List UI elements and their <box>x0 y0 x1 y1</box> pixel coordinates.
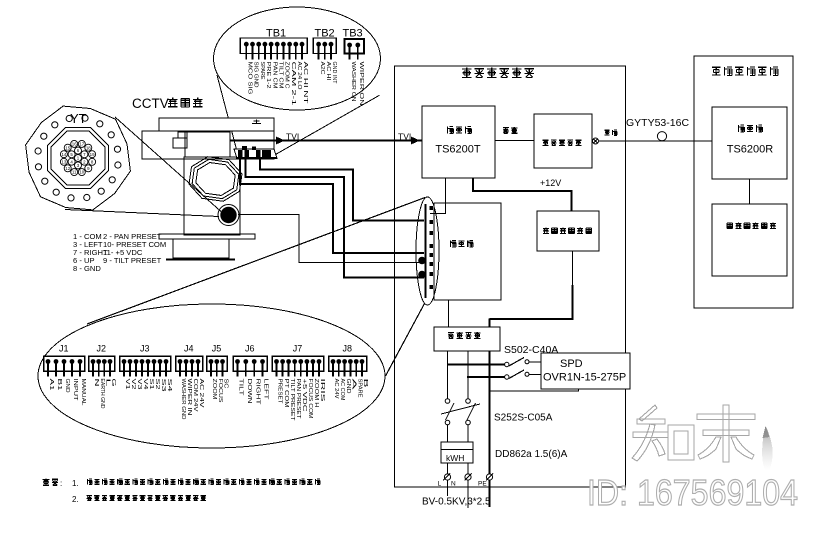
wire N drop <box>467 480 469 508</box>
callout ellipse TB detail <box>214 7 381 110</box>
DC power supply box <box>537 211 599 251</box>
svg-text:SC: SC <box>223 379 229 389</box>
terminal block J8 <box>329 344 369 402</box>
YT connector octagon body <box>48 128 109 189</box>
svg-text:AC 24V: AC 24V <box>333 379 339 399</box>
YT connector outer polygon <box>26 106 131 210</box>
label fiber pigtail <box>495 140 534 142</box>
svg-text:AC 24V: AC 24V <box>198 379 204 409</box>
camera connector socket <box>218 205 239 226</box>
svg-text:DD862a 1.5(6)A: DD862a 1.5(6)A <box>495 449 568 460</box>
wire +12V feed <box>473 178 572 211</box>
wire pan control W_a <box>260 159 424 221</box>
wire TVI video coax <box>230 139 422 141</box>
callout tangent line YT-bottom <box>65 210 219 217</box>
svg-text:S252S-C05A: S252S-C05A <box>494 413 553 424</box>
police station title <box>712 67 720 75</box>
wire AVR output N <box>467 351 469 399</box>
svg-text:PRESET: PRESET <box>277 379 283 405</box>
callout ellipse J detail <box>38 304 385 448</box>
svg-text:ZOOM: ZOOM <box>211 379 217 401</box>
svg-text:SPARE: SPARE <box>356 379 362 398</box>
terminal block J5 <box>207 344 229 404</box>
svg-text:COM 24V: COM 24V <box>192 379 198 413</box>
breaker S502-C40A pole 2 <box>505 370 541 379</box>
svg-text:S1: S1 <box>148 379 154 390</box>
svg-text:G: G <box>110 379 116 387</box>
wire PE drop <box>488 480 490 507</box>
svg-text:J1: J1 <box>59 344 69 354</box>
camera inner body <box>185 132 230 157</box>
wire preset W_c <box>246 159 425 278</box>
notes label <box>43 478 50 485</box>
svg-text:TB3: TB3 <box>343 28 363 40</box>
svg-text:AC COM: AC COM <box>339 379 345 402</box>
callout tangent line decoder-top <box>87 198 425 325</box>
svg-text:TS6200R: TS6200R <box>727 144 774 156</box>
svg-text:CAM 2-1: CAM 2-1 <box>290 62 296 106</box>
svg-text:16: 16 <box>72 142 77 147</box>
YT connector mounting holes ring <box>35 115 121 201</box>
svg-text:TVI: TVI <box>398 132 411 142</box>
wire meter to terminal L <box>447 463 449 474</box>
terminal N <box>451 474 472 488</box>
watermark cursor blob <box>762 426 773 471</box>
control box enclosure <box>395 66 626 487</box>
camera lens octagon <box>187 155 243 204</box>
svg-text:WASHER GND: WASHER GND <box>180 379 186 420</box>
wire breaker to meter L <box>447 425 449 442</box>
terminal block TB1 <box>240 28 308 106</box>
svg-text:TILT: TILT <box>238 379 244 397</box>
arrow TVI near camera <box>276 137 285 145</box>
svg-text:WIPER ON: WIPER ON <box>358 62 364 106</box>
svg-text:GND: GND <box>64 379 70 393</box>
breaker S252S-C05A pole 2 <box>466 399 476 425</box>
wire tap to SPD N <box>467 376 505 378</box>
police station enclosure <box>694 56 793 308</box>
svg-text:13: 13 <box>61 159 66 164</box>
svg-text:S2: S2 <box>154 379 160 390</box>
wire decoder to AVR <box>448 300 450 327</box>
svg-text:TILT CM: TILT CM <box>277 62 283 90</box>
svg-text:IRIS: IRIS <box>319 379 325 403</box>
svg-text:PT COM: PT COM <box>283 379 289 409</box>
camera terminal strip <box>234 146 277 159</box>
svg-text:RIGHT: RIGHT <box>254 379 260 406</box>
svg-text:PAN CM: PAN CM <box>271 62 277 90</box>
svg-text:A2C: A2C <box>319 62 325 75</box>
camera housing lid <box>159 118 274 131</box>
wire tilt control W_b <box>240 159 424 253</box>
svg-text:CCTV: CCTV <box>132 96 169 111</box>
svg-text:10: 10 <box>79 170 84 175</box>
svg-text:2.: 2. <box>72 495 79 504</box>
svg-text:FOCUS COM: FOCUS COM <box>307 379 313 420</box>
fiber terminal box <box>534 114 592 168</box>
svg-text:N: N <box>93 379 99 387</box>
wire AVR output L <box>447 351 449 399</box>
svg-text:WASHER ON: WASHER ON <box>350 62 356 102</box>
svg-text:LEFT: LEFT <box>263 379 269 401</box>
callout tangent line TB-right <box>276 95 380 154</box>
svg-text:V2: V2 <box>130 379 136 390</box>
svg-text:15: 15 <box>65 145 70 150</box>
svg-text:V4: V4 <box>142 379 148 390</box>
terminal block J1 <box>44 344 87 406</box>
svg-text:MCO SIG: MCO SIG <box>247 62 253 95</box>
svg-text:8 - GND: 8 - GND <box>73 264 101 273</box>
SPD surge protector box <box>541 353 630 389</box>
terminal block J7 <box>272 344 325 422</box>
svg-text:9 - TILT PRESET: 9 - TILT PRESET <box>103 256 162 265</box>
wire DC supply to AVR and PE <box>572 251 574 286</box>
svg-text:AC HI: AC HI <box>325 62 331 81</box>
svg-text:1.: 1. <box>72 479 79 488</box>
control box title <box>462 68 472 78</box>
terminal block J3 <box>120 344 173 392</box>
breaker S252S-C05A pole 1 <box>445 399 454 425</box>
terminal block J4 <box>176 344 205 420</box>
decoder box <box>434 203 501 300</box>
svg-text:GND: GND <box>345 379 351 394</box>
svg-text:J8: J8 <box>343 344 353 354</box>
svg-text:WIPER IN: WIPER IN <box>186 379 192 416</box>
svg-text:J6: J6 <box>245 344 255 354</box>
camera housing body <box>142 131 274 159</box>
svg-text:S4: S4 <box>166 379 172 392</box>
terminal L <box>438 474 451 488</box>
svg-text:INPUT: INPUT <box>72 379 78 402</box>
svg-text:B1: B1 <box>56 379 62 391</box>
svg-text:14: 14 <box>61 152 66 157</box>
svg-text:L: L <box>105 379 111 387</box>
svg-text:GND INT: GND INT <box>331 62 337 85</box>
arrow TVI near control box <box>411 137 420 145</box>
svg-text:L: L <box>438 481 442 488</box>
wire breaker to meter N <box>467 425 469 442</box>
svg-text:J7: J7 <box>293 344 303 354</box>
svg-text:SPARE: SPARE <box>259 62 265 80</box>
svg-text:17: 17 <box>79 142 84 147</box>
wire camera connector W_d <box>238 215 424 263</box>
svg-text:J2: J2 <box>97 344 107 354</box>
YT pin assignment list <box>73 232 166 273</box>
wire meter to terminal N <box>467 463 469 474</box>
svg-text:12: 12 <box>65 166 70 171</box>
svg-text:A1: A1 <box>48 379 54 391</box>
video switcher box <box>712 204 787 276</box>
svg-text:+5 VDC: +5 VDC <box>301 379 307 412</box>
svg-text:TILT PRESET: TILT PRESET <box>289 379 295 422</box>
svg-text:+12V: +12V <box>540 178 561 188</box>
callout tangent line TB-left <box>217 75 237 150</box>
fiber splice circle <box>657 132 666 141</box>
svg-text:V3: V3 <box>136 379 142 390</box>
svg-text:19: 19 <box>90 152 95 157</box>
svg-text:AC 24 LO: AC 24 LO <box>296 62 302 90</box>
svg-text:J4: J4 <box>184 344 194 354</box>
svg-text:BV-0.5KV,3*2.5: BV-0.5KV,3*2.5 <box>422 497 491 508</box>
terminal block J2 <box>89 344 117 409</box>
svg-text:PAN PRESET: PAN PRESET <box>295 379 301 420</box>
camera lid vent symbol <box>252 120 261 124</box>
svg-text:18: 18 <box>86 145 91 150</box>
camera base line <box>166 259 235 261</box>
svg-text:TS6200T: TS6200T <box>435 144 481 156</box>
camera pan-tilt body <box>184 157 240 235</box>
decoder connector strip <box>416 197 439 305</box>
AVR voltage regulator box <box>434 327 500 351</box>
terminal block TB3 <box>343 28 365 106</box>
camera pedestal <box>173 239 229 258</box>
callout tangent line decoder-bottom <box>386 304 425 377</box>
wire SPD to PE <box>490 389 579 391</box>
wire receiver to switcher <box>749 179 751 204</box>
svg-text:V1: V1 <box>124 379 130 390</box>
svg-text:ZOOM H: ZOOM H <box>313 379 319 408</box>
svg-text:EARTH GND: EARTH GND <box>99 379 105 409</box>
svg-text:SPD: SPD <box>560 358 583 370</box>
label optical cable <box>605 130 610 135</box>
svg-text::: : <box>60 479 62 488</box>
callout tangent line YT-top <box>115 117 221 212</box>
terminal PE <box>478 474 493 488</box>
svg-text:J5: J5 <box>212 344 222 354</box>
svg-text:kWH: kWH <box>446 453 464 463</box>
svg-text:FOCUS: FOCUS <box>217 379 223 404</box>
svg-text:N: N <box>451 481 456 488</box>
svg-text:DOWN: DOWN <box>246 379 252 404</box>
energy meter kWH <box>441 442 473 463</box>
camera lens hood detail <box>173 138 187 148</box>
YT connector pin cluster <box>60 140 95 175</box>
wire L drop <box>447 480 449 496</box>
svg-text:OVR1N-15-275P: OVR1N-15-275P <box>543 372 626 384</box>
svg-text:A: A <box>351 379 357 391</box>
svg-text:S3: S3 <box>160 379 166 392</box>
svg-text:PE: PE <box>478 481 487 488</box>
fiber exit symbol <box>592 138 712 144</box>
svg-text:ID: 167569104: ID: 167569104 <box>587 472 798 513</box>
svg-text:MANUAL: MANUAL <box>80 379 86 406</box>
svg-text:B: B <box>362 379 368 389</box>
svg-text:TVI: TVI <box>286 132 299 142</box>
svg-text:SIG GND: SIG GND <box>253 62 259 88</box>
terminal block J6 <box>233 344 269 406</box>
optical transmitter TS6200T box <box>422 106 495 178</box>
optical receiver TS6200R box <box>712 107 787 179</box>
camera mounting plate <box>159 234 255 239</box>
breaker tie bar <box>441 404 480 414</box>
wire TS6200T to decoder <box>430 178 446 214</box>
wire tap to SPD L <box>448 364 505 366</box>
svg-text:PRE 1-2: PRE 1-2 <box>265 62 271 89</box>
breaker S502-C40A pole 1 <box>505 358 541 367</box>
svg-text:J3: J3 <box>140 344 150 354</box>
watermark logo zhimo <box>632 405 755 462</box>
svg-text:AC HI NT: AC HI NT <box>302 62 308 105</box>
svg-text:11: 11 <box>72 170 77 175</box>
terminal block TB2 <box>313 28 337 85</box>
svg-text:GYTY53-16C: GYTY53-16C <box>626 117 689 129</box>
svg-text:ZOOM C: ZOOM C <box>284 62 290 89</box>
